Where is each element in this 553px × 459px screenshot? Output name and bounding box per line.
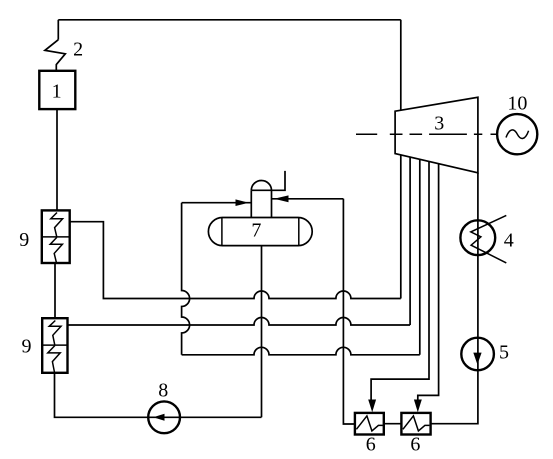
deaerator dome base / vent line bbox=[251, 171, 285, 190]
wire: extraction 3 drop from turbine bbox=[419, 160, 421, 355]
deaerator 7 vessel (stadium) bbox=[208, 218, 312, 246]
wire: deaerator downpipe bbox=[261, 246, 263, 418]
heater 9 upper coil top bbox=[51, 213, 63, 237]
pump 5 (circle) bbox=[461, 338, 494, 371]
svg-text:9: 9 bbox=[22, 335, 32, 357]
svg-text:7: 7 bbox=[251, 219, 261, 241]
wire: boiler to upper heater bbox=[56, 109, 58, 210]
wire: extraction 1 drop from turbine bbox=[400, 155, 402, 298]
pump 8 (circle) bbox=[148, 401, 180, 433]
wire: steam inlet to deaerator neck (left) bbox=[182, 202, 252, 204]
condenser 4 (circle) bbox=[460, 220, 495, 255]
wire: extraction 4 drop to gland heater 6a bbox=[371, 162, 429, 400]
wire: extraction 1 header (heater9u right, down at x104, east to x401 with hops) bbox=[70, 222, 401, 299]
heater 9 lower divider bbox=[42, 344, 67, 346]
svg-text:1: 1 bbox=[52, 80, 62, 102]
wire: extraction 5 drop to gland heater 6b bbox=[418, 164, 439, 400]
gland heater 6b coil bbox=[403, 416, 430, 431]
gland heater 6a (box) bbox=[355, 413, 384, 435]
heater 9 upper divider bbox=[42, 236, 70, 238]
wire: turbine exhaust through condenser and pump 5 to bottom bbox=[431, 173, 478, 424]
arrow into deaerator neck right bbox=[274, 195, 289, 202]
wire: condensate to deaerator neck (right) bbox=[272, 198, 344, 200]
pump 5 arrow bbox=[473, 353, 481, 365]
pipe break 2 (zigzag) bbox=[45, 40, 65, 71]
generator tilde bbox=[506, 130, 529, 139]
deaerator dome bbox=[251, 181, 271, 191]
wire: extraction 3 riser (left loop, hops over headers 1,2) bbox=[182, 203, 190, 355]
turbine 3 (trapezoid) bbox=[395, 97, 478, 173]
gland heater 6b (box) bbox=[401, 413, 430, 435]
arrow into deaerator neck left bbox=[236, 199, 249, 206]
wire: extraction 3 header (east to x420 with hops) bbox=[182, 347, 420, 354]
heater 9 lower coil top bbox=[49, 321, 61, 346]
svg-text:6: 6 bbox=[410, 434, 420, 456]
wire: extraction 2 header (heater9l right east to x410 with hops) bbox=[68, 318, 411, 325]
boiler 1 (box) bbox=[39, 71, 75, 109]
gland heater 6a coil bbox=[356, 416, 383, 431]
condenser cooling water zigzag bbox=[471, 215, 507, 263]
arrow into box 6b bbox=[414, 400, 422, 413]
svg-text:5: 5 bbox=[499, 342, 509, 364]
arrow into box 6a bbox=[368, 400, 376, 413]
wire: main steam line (top) bbox=[58, 19, 401, 21]
wire: riser above pipe-break bbox=[57, 20, 59, 40]
svg-text:6: 6 bbox=[366, 434, 376, 456]
svg-text:9: 9 bbox=[19, 229, 29, 251]
svg-text:10: 10 bbox=[507, 92, 527, 114]
pump 8 arrow bbox=[153, 414, 164, 421]
wire: upper heater to lower heater bbox=[54, 263, 56, 318]
deaerator 7 head seam right bbox=[298, 218, 300, 246]
deaerator neck left wall bbox=[250, 190, 252, 217]
wire: condensate riser (right loop) into deaerator neck right bbox=[343, 199, 355, 424]
svg-text:4: 4 bbox=[504, 230, 514, 252]
heater 9 upper (box) bbox=[42, 210, 70, 263]
heater 9 lower coil bottom bbox=[48, 346, 60, 373]
wire: connector between 6a and 6b bbox=[384, 423, 402, 425]
wire: turbine inlet drop bbox=[400, 20, 402, 111]
generator 10 (circle) bbox=[497, 114, 537, 154]
svg-text:2: 2 bbox=[73, 38, 83, 60]
svg-text:3: 3 bbox=[434, 113, 444, 135]
turbine shaft centerline (dash-dot) bbox=[356, 133, 497, 135]
heater 9 upper coil bottom bbox=[50, 237, 62, 262]
deaerator 7 head seam left bbox=[221, 218, 223, 246]
deaerator neck right wall bbox=[271, 190, 273, 217]
wire: extraction 2 drop from turbine bbox=[409, 157, 411, 325]
svg-text:8: 8 bbox=[158, 380, 168, 402]
heater 9 lower (box) bbox=[42, 318, 67, 373]
wire: lower heater down and feedwater line to deaerator downpipe bbox=[55, 373, 262, 418]
